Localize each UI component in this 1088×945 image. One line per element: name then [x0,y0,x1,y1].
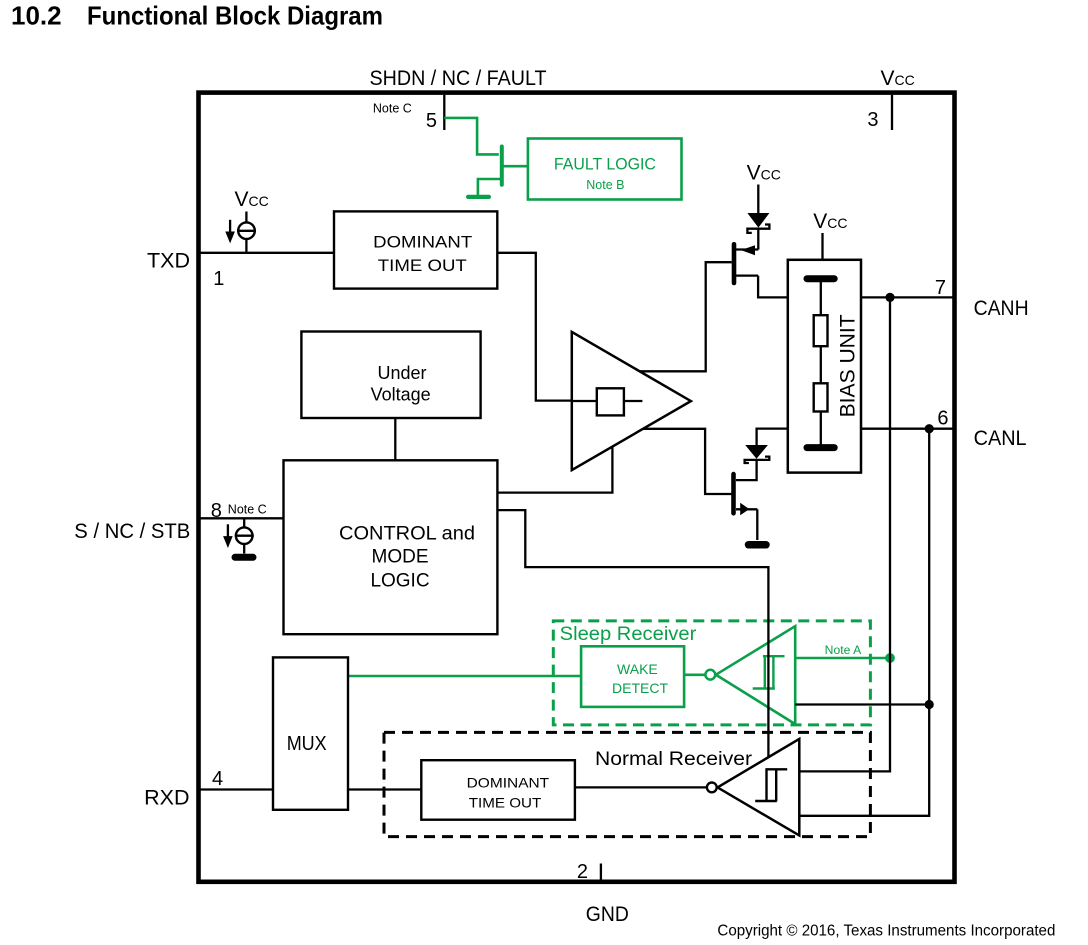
normal comparator bubble [707,783,717,793]
driver slope element square [597,388,624,415]
Q1 arrow [741,245,755,255]
wire CANH bus down to normal receiver [799,297,890,771]
wire D1 cathode to Q1 [757,229,759,250]
ground (Q2) [749,541,767,549]
wire CANL output [861,428,955,430]
current source CS2 circle [236,527,253,544]
svg-text:Normal Receiver: Normal Receiver [595,749,753,770]
bias unit wire top [820,282,822,315]
svg-text:SHDN / NC / FAULT: SHDN / NC / FAULT [370,66,547,90]
Q2 source line [736,508,757,510]
svg-text:BIAS UNIT: BIAS UNIT [837,314,860,417]
resistor R2 [814,383,828,411]
wire U11 to normal comparator bubble [575,786,707,788]
sleep comparator U9 triangle [716,626,795,724]
svg-text:GND: GND [586,902,629,926]
resistor R1 [814,315,828,346]
fault logic box U2 [528,139,682,200]
zener diode D1 anode wire [757,185,759,214]
wire wake detect to bubble [684,673,705,676]
IC boundary box [199,93,955,882]
wire control to driver enable [497,447,612,493]
svg-text:7: 7 [935,277,946,299]
driver slope element through-line [573,400,642,402]
svg-text:LOGIC: LOGIC [370,571,429,592]
svg-text:FAULT LOGIC: FAULT LOGIC [554,155,656,174]
transistor Q3 channel bar [500,147,504,185]
wire driver top output to Q1 gate [640,262,732,371]
svg-text:2: 2 [577,861,588,883]
svg-text:CANH: CANH [974,296,1029,320]
wire Q2 source to ground [756,509,758,540]
wire Vcc to bias unit [821,233,823,260]
svg-text:Note C: Note C [228,503,267,517]
svg-text:5: 5 [426,110,437,132]
svg-text:CONTROL and: CONTROL and [339,523,475,544]
current source CS1 lower stem [245,239,247,253]
zener diode D1 [747,213,769,233]
dominant time out box U3 [334,211,497,288]
under voltage box U4 [301,332,480,419]
svg-text:TIME OUT: TIME OUT [469,795,542,811]
ground (fault transistor) [468,195,489,199]
current source CS1 circle [238,222,255,239]
bias unit wire mid [820,346,822,383]
normal receiver dashed enclosure [384,732,870,836]
wire sleep lower input to CANL bus [795,703,929,705]
wire TXD input [199,252,335,254]
transistor Q2 channel bar [731,474,736,513]
wake detect label [612,661,668,696]
normal comparator hysteresis symbol [755,769,787,801]
section heading [11,1,383,31]
wire pin5 to Q3 gate [444,118,499,154]
Q2 arrow [740,503,749,516]
svg-text:8: 8 [211,500,222,522]
svg-text:Note C: Note C [373,101,412,115]
svg-text:Under: Under [377,363,426,383]
wire RXD input [199,788,274,790]
wire Q3 drain to fault logic [503,165,528,168]
wire sleep output to CANH bus [795,657,890,660]
svg-text:4: 4 [212,768,223,790]
current source CS1 stem [245,212,247,223]
wire Q3 source to ground [478,179,500,196]
wire CANL left segment [757,429,788,445]
svg-text:S / NC / STB: S / NC / STB [74,519,190,543]
svg-text:CANL: CANL [974,426,1027,450]
current source CS2 stem [243,518,245,527]
dominant time out box U11 [421,760,575,820]
control and mode logic label [339,523,475,591]
dominant time out label (U11) [467,774,550,810]
wire CANL bus down to normal receiver [799,429,929,816]
svg-text:Note B: Note B [586,178,624,192]
normal comparator U12 triangle [718,739,800,836]
transistor Q1 channel bar [732,244,737,283]
sleep comparator hysteresis symbol [753,656,785,689]
wire D2 cathode to Q2 drain [736,460,757,480]
svg-text:WAKE: WAKE [617,661,658,677]
svg-text:3: 3 [867,109,878,131]
wire driver bottom output to Q2 gate [643,429,732,494]
arrow (CS1 current direction) [225,220,235,244]
driver amplifier U6 [572,332,691,470]
wake detect box U8 [581,646,684,707]
svg-text:10.2: 10.2 [11,1,62,31]
wire MUX to wake detect [348,675,581,678]
svg-text:Note A: Note A [825,643,862,657]
svg-text:Voltage: Voltage [371,384,431,404]
wire Q1 drain to CANH rail [758,276,788,298]
node sleep output on CANH bus [885,653,895,663]
svg-text:Copyright © 2016, Texas Instru: Copyright © 2016, Texas Instruments Inco… [717,923,1055,940]
sleep receiver dashed enclosure [553,621,870,725]
zener diode D2 [745,445,770,463]
arrow (CS2 current direction) [223,524,233,548]
svg-text:DOMINANT: DOMINANT [467,774,550,790]
svg-text:TXD: TXD [147,249,190,273]
control and mode logic box U5 [284,460,498,634]
wire S input [199,517,284,519]
svg-text:DOMINANT: DOMINANT [373,233,472,252]
current source CS1 bar [237,230,256,232]
wire control to normal receiver enable [497,510,768,757]
pin 3 stub [891,95,893,130]
Q1 source line [736,248,758,250]
wire CANH output [861,296,955,298]
svg-text:1: 1 [213,268,224,290]
svg-text:TIME OUT: TIME OUT [378,256,467,275]
svg-text:6: 6 [937,407,948,429]
pin 2 stub [600,864,602,882]
wire MUX to dominant time out U11 [348,788,421,790]
bias unit bottom plate [807,444,834,451]
svg-text:Functional Block Diagram: Functional Block Diagram [87,1,383,31]
bias unit box U7 [788,260,861,473]
current source CS2 bar [235,535,254,537]
under voltage label [371,363,431,405]
svg-text:RXD: RXD [144,786,189,810]
svg-text:MUX: MUX [287,733,327,755]
sleep comparator bubble [705,670,715,680]
dominant time out label [373,233,472,275]
svg-text:Sleep Receiver: Sleep Receiver [560,624,697,645]
bias unit wire bottom [820,412,822,445]
current source CS2 lower stem [243,544,245,554]
svg-text:MODE: MODE [372,547,429,568]
ground (CS2) [235,554,253,561]
node CANL junction [925,424,934,433]
bias unit top plate [807,275,834,282]
pin 5 stub [443,95,445,130]
MUX box U10 [273,657,348,809]
node sleep input on CANL bus [925,700,934,709]
node CANH junction [885,293,894,302]
wire U3 output to driver input [497,253,572,401]
svg-text:DETECT: DETECT [612,680,668,696]
Q1 drain line [736,274,758,276]
wire U4 to control logic [394,418,396,460]
